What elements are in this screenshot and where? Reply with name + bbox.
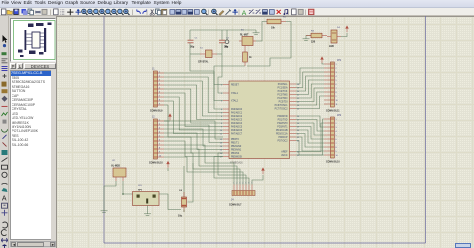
wire PB4-J4.5 (218, 153, 246, 185)
U1 right pins (290, 84, 300, 157)
connector J1 (154, 71, 165, 107)
wire AVCC-JP2.1 (296, 119, 324, 155)
menu bar (0, 0, 474, 8)
svg-text:RL-M5T: RL-M5T (240, 35, 249, 37)
svg-text:PB3/AIN1: PB3/AIN1 (231, 149, 242, 152)
svg-text:PC2/TCK: PC2/TCK (278, 91, 288, 93)
wire gnd-R3 (306, 35, 311, 38)
svg-text:PD0/RXD: PD0/RXD (277, 116, 287, 118)
svg-text:5: 5 (336, 80, 337, 82)
svg-text:2: 2 (159, 123, 160, 125)
svg-text:7: 7 (159, 95, 160, 97)
svg-text:A: A (2, 195, 7, 202)
wire AREF-JP2.2 (296, 123, 324, 152)
svg-text:1: 1 (336, 119, 337, 121)
svg-text:J2: J2 (152, 116, 155, 119)
svg-text:PB1/T1: PB1/T1 (231, 143, 239, 145)
svg-text:10u: 10u (178, 215, 183, 218)
wire J2.5-PB4 (164, 137, 223, 153)
wire U2-LS1 (123, 181, 133, 194)
svg-text:C2: C2 (226, 38, 230, 40)
wire right rail mid (221, 43, 223, 54)
svg-text:J4: J4 (231, 199, 234, 202)
wire button-R1 (256, 22, 267, 42)
svg-text:4: 4 (159, 131, 160, 133)
svg-text:PA4/ADC4: PA4/ADC4 (231, 122, 243, 125)
wire top rail (190, 29, 256, 31)
power terminal bottom (262, 168, 265, 174)
svg-text:5: 5 (336, 135, 337, 137)
left mode toolbar (0, 16, 9, 248)
svg-text:XTAL1: XTAL1 (231, 92, 239, 95)
svg-text:10: 10 (336, 155, 338, 157)
svg-text:1: 1 (159, 119, 160, 121)
svg-text:LS1: LS1 (138, 185, 143, 187)
svg-text:PC5/TDI: PC5/TDI (279, 102, 288, 104)
svg-text:8: 8 (159, 147, 160, 149)
power terminal LS1 area (167, 162, 170, 168)
svg-text:PA3/ADC3: PA3/ADC3 (231, 119, 243, 122)
svg-text:SP1: SP1 (138, 190, 143, 192)
svg-text:7: 7 (159, 143, 160, 145)
wire PD6-JP2.9 (296, 137, 324, 151)
wire LED-power (341, 33, 347, 37)
wire branch LS1 (188, 163, 194, 202)
svg-text:CONN-SIL10: CONN-SIL10 (326, 162, 340, 164)
ground bottom-left (101, 208, 108, 212)
svg-text:PB4/SS: PB4/SS (231, 153, 240, 155)
svg-text:PA0/ADC0: PA0/ADC0 (231, 108, 243, 111)
wire PC1-JP1.3 (296, 72, 324, 88)
ground crystal (253, 30, 260, 34)
svg-text:5: 5 (159, 135, 160, 137)
wire J2.4-PB3 (164, 133, 223, 150)
svg-text:4: 4 (336, 131, 337, 133)
svg-text:PC1/SDA: PC1/SDA (278, 87, 288, 90)
connector J4 (232, 183, 255, 196)
svg-text:10: 10 (336, 100, 338, 102)
svg-text:8: 8 (336, 147, 337, 149)
wire power-JP1 (322, 63, 324, 64)
wire J1.3-PA2 (164, 81, 223, 116)
wire RESET (214, 66, 245, 85)
wire J1.6-PA5 (164, 93, 223, 127)
wire J1.5-PA4 (164, 89, 223, 123)
resistor R2 below button (243, 46, 248, 67)
svg-text:4: 4 (159, 83, 160, 85)
svg-text:2: 2 (159, 75, 160, 77)
svg-text:RESET: RESET (231, 85, 239, 87)
wire power LS1 stem (167, 168, 169, 171)
svg-text:10: 10 (159, 155, 161, 157)
svg-text:9: 9 (159, 103, 160, 105)
svg-text:Mz: Mz (225, 47, 229, 49)
svg-text:CONN-SIL10: CONN-SIL10 (149, 163, 163, 165)
wire circle stub (226, 30, 228, 40)
connector JP1 (324, 62, 338, 107)
wire PD1-JP2.4 (296, 120, 324, 132)
wire branch C4 (183, 166, 185, 197)
svg-text:7: 7 (336, 143, 337, 145)
svg-text:9: 9 (159, 151, 160, 153)
svg-text:R1: R1 (283, 17, 287, 19)
wire PD3-JP2.6 (296, 127, 324, 140)
svg-text:8: 8 (336, 92, 337, 94)
preview pane (10, 18, 56, 62)
device list (10, 70, 51, 240)
capacitor C1 (188, 40, 194, 43)
wire J1.2-PA1 (164, 77, 223, 113)
wire PC5-JP1.7 (296, 88, 324, 102)
horizontal scrollbar (10, 241, 56, 247)
LED D4 (327, 30, 341, 43)
DEVICES header (24, 63, 56, 69)
svg-text:AVCC: AVCC (281, 154, 288, 157)
svg-text:3: 3 (159, 127, 160, 129)
ground LS1 (144, 211, 151, 215)
wire J1.4-PA3 (164, 85, 223, 120)
wire XTAL2 feed (190, 43, 223, 101)
power terminal J2 (169, 114, 172, 120)
svg-text:PB0/T0: PB0/T0 (231, 139, 239, 141)
wire crystal right (217, 53, 222, 55)
wire right rail upper (221, 30, 223, 40)
svg-text:220: 220 (311, 41, 316, 44)
wire C4 bottom join (183, 210, 185, 213)
wire crystal left (190, 53, 200, 55)
capacitor C2 (219, 40, 225, 43)
U1 left pins (220, 84, 229, 158)
svg-text:CONN-SIL11: CONN-SIL11 (326, 111, 340, 113)
wire PD5-JP2.8 (296, 134, 324, 148)
wire J1.8-PA7 (164, 101, 223, 134)
svg-text:2: 2 (336, 123, 337, 125)
svg-text:JP2: JP2 (337, 114, 342, 117)
svg-text:1: 1 (336, 64, 337, 66)
wire PB5-J4.6 (214, 157, 249, 185)
svg-text:PD6/ICP: PD6/ICP (278, 137, 288, 139)
wire PC7-JP1.9 (296, 96, 324, 109)
svg-text:PB2/AIN0: PB2/AIN0 (231, 145, 242, 148)
wire J2.2-PB1 (164, 125, 223, 143)
resistor R1 (267, 19, 286, 24)
svg-text:J1: J1 (152, 68, 155, 71)
svg-text:PC0/SCL: PC0/SCL (278, 84, 288, 86)
preview pane schematic thumbnail (11, 19, 57, 62)
wire J2.10-J4.4 (164, 157, 243, 185)
resistor R3 (306, 33, 327, 38)
svg-text:R3: R3 (311, 31, 315, 33)
svg-text:2: 2 (336, 68, 337, 70)
svg-text:6: 6 (159, 91, 160, 93)
left panel (9, 16, 56, 248)
svg-text:AREF: AREF (281, 151, 288, 154)
svg-text:3: 3 (336, 127, 337, 129)
wire PD7-JP2.10 (296, 141, 324, 156)
wire LS1-C4 (159, 194, 181, 210)
svg-text:6: 6 (336, 84, 337, 86)
wire PD2-JP2.5 (296, 123, 324, 135)
svg-text:UL-M3S: UL-M3S (111, 165, 120, 168)
svg-text:11: 11 (336, 104, 338, 106)
wire PC2-JP1.4 (296, 76, 324, 91)
svg-text:PD3/INT1: PD3/INT1 (277, 127, 288, 129)
microcontroller U1 ATMEGA16 (229, 81, 290, 159)
svg-text:LED: LED (329, 45, 334, 48)
svg-text:C4: C4 (179, 189, 183, 192)
connector J2 (154, 119, 165, 159)
bottom-right indicator (455, 243, 471, 248)
wire PC6-JP1.8 (296, 92, 324, 105)
svg-text:7: 7 (336, 88, 337, 90)
wire J2.1-PB0 (164, 121, 223, 139)
wire J1.1-PA0 (164, 73, 223, 109)
svg-text:D4: D4 (337, 27, 341, 29)
push button B1 (239, 37, 256, 46)
wire U2-gnd (104, 181, 116, 208)
ground top-right (303, 36, 310, 40)
object selector buttons (10, 63, 16, 69)
wire LS1-gnd (147, 206, 149, 212)
svg-text:PA6/ADC6: PA6/ADC6 (231, 129, 243, 132)
capacitor C4 (182, 192, 187, 212)
wire J1.9 (164, 105, 223, 137)
svg-text:30p: 30p (190, 46, 195, 49)
svg-text:PA2/ADC2: PA2/ADC2 (231, 115, 243, 118)
wire PC3-JP1.5 (296, 80, 324, 95)
wire PD4-JP2.7 (296, 130, 324, 143)
wire PC0-JP1.2 (296, 68, 324, 84)
svg-text:JP1: JP1 (337, 59, 342, 62)
speaker LS1 (133, 192, 160, 206)
svg-text:CONN-SIL9: CONN-SIL9 (150, 111, 163, 113)
svg-text:4: 4 (336, 76, 337, 78)
wire PD0-JP2.3 (296, 116, 324, 127)
svg-text:PD4/OC1B: PD4/OC1B (276, 130, 288, 132)
svg-text:PC6/TOSC1: PC6/TOSC1 (275, 105, 289, 107)
sheet border bottom (104, 242, 426, 244)
power terminal JP1 (321, 57, 324, 63)
wire power-J2 (164, 120, 170, 122)
svg-text:XTAL2: XTAL2 (231, 100, 239, 103)
wire PC4-JP1.6 (296, 84, 324, 98)
vertical scrollbar (51, 70, 56, 240)
wire power-J4 (252, 175, 263, 185)
power terminal top-right (346, 26, 349, 32)
wire XTAL1 feed (218, 54, 223, 93)
sheet border right (425, 16, 427, 243)
wire J1.7-PA6 (164, 97, 223, 130)
svg-text:PD5/OC1A: PD5/OC1A (276, 133, 288, 136)
svg-text:CONN-SIL7: CONN-SIL7 (229, 205, 242, 207)
svg-text:3: 3 (159, 79, 160, 81)
svg-text:9: 9 (336, 151, 337, 153)
wire J2.7-J4.1 (164, 145, 234, 185)
sheet border left (103, 16, 105, 243)
svg-text:C1: C1 (195, 38, 199, 40)
svg-text:1: 1 (159, 71, 160, 73)
wire J2.9-J4.3 (164, 153, 240, 185)
svg-text:5: 5 (159, 87, 160, 89)
svg-text:X1: X1 (200, 48, 203, 50)
connector JP2 (324, 117, 338, 158)
svg-text:PA5/ADC5: PA5/ADC5 (231, 126, 243, 129)
svg-text:3: 3 (336, 72, 337, 74)
svg-text:8: 8 (159, 99, 160, 101)
svg-text:10k: 10k (271, 28, 276, 30)
svg-text:CRYSTAL: CRYSTAL (198, 61, 209, 64)
svg-text:PA1/ADC1: PA1/ADC1 (231, 112, 243, 115)
svg-text:PB5/MOSI: PB5/MOSI (231, 157, 242, 159)
svg-text:PD1/TXD: PD1/TXD (278, 120, 288, 122)
wire J2.3-PB2 (164, 129, 223, 146)
wire left rail upper (189, 30, 191, 40)
svg-text:PC4/TDO: PC4/TDO (277, 98, 287, 100)
wire J2.6-PB5 (164, 141, 223, 157)
svg-text:PC7/TOSC2: PC7/TOSC2 (275, 109, 289, 111)
svg-text:6: 6 (336, 139, 337, 141)
svg-text:PC3/TMS: PC3/TMS (277, 95, 288, 97)
wire R1 down (247, 22, 291, 67)
svg-text:PA7/ADC7: PA7/ADC7 (231, 133, 243, 136)
svg-text:1k: 1k (249, 57, 252, 59)
svg-text:9: 9 (336, 96, 337, 98)
svg-text:U2: U2 (112, 160, 116, 162)
svg-text:PD2/INT0: PD2/INT0 (277, 123, 288, 125)
svg-text:PD7/OC2: PD7/OC2 (278, 141, 289, 143)
svg-text:6: 6 (159, 139, 160, 141)
main toolbar (0, 8, 474, 16)
crystal X1 (200, 50, 217, 58)
wire J2.8-J4.2 (164, 149, 237, 185)
component U2 (113, 168, 126, 181)
